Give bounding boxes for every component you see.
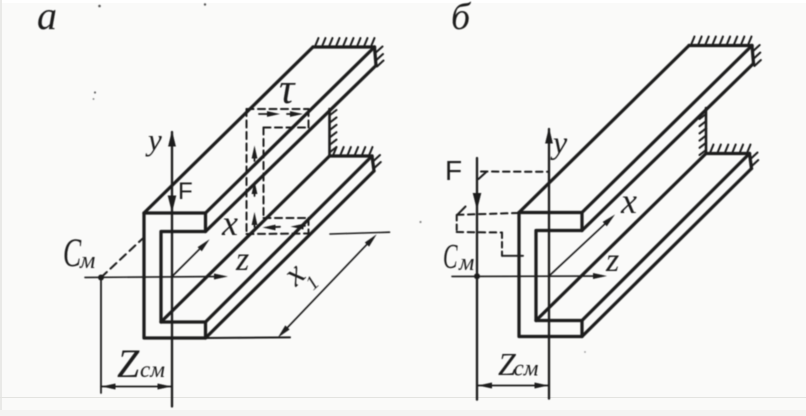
svg-text:τ: τ xyxy=(279,66,296,113)
svg-text:z: z xyxy=(605,242,619,279)
svg-text:м: м xyxy=(79,248,95,274)
svg-text:z: z xyxy=(235,241,249,278)
svg-text:а: а xyxy=(37,0,57,38)
svg-text:у: у xyxy=(145,122,162,157)
svg-text:Z: Z xyxy=(117,341,140,386)
svg-text:x: x xyxy=(221,203,238,243)
svg-text:x: x xyxy=(620,181,637,221)
svg-text:C: C xyxy=(443,238,458,276)
svg-text:у: у xyxy=(550,124,568,160)
svg-text:б: б xyxy=(451,0,472,38)
svg-text:см: см xyxy=(140,357,165,382)
svg-text:см: см xyxy=(514,356,539,381)
svg-text:F: F xyxy=(178,178,193,205)
svg-text:F: F xyxy=(445,155,462,186)
svg-text:м: м xyxy=(458,250,474,276)
